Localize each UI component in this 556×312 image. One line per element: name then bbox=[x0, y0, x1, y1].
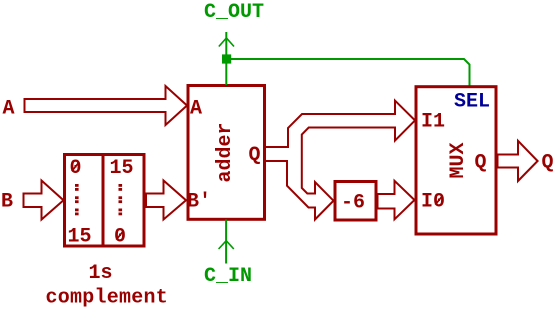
wire C_IN (green, into adder bottom) bbox=[225, 220, 227, 264]
svg-text:1s: 1s bbox=[89, 262, 113, 285]
1s complement block body bbox=[65, 155, 145, 247]
1s complement divider bbox=[102, 155, 105, 247]
svg-text:Q: Q bbox=[475, 152, 487, 175]
junction node (green square) bbox=[222, 54, 231, 63]
svg-text:Q: Q bbox=[542, 152, 554, 175]
svg-text:B': B' bbox=[187, 191, 211, 214]
arrowhead C_OUT bbox=[219, 38, 234, 47]
svg-text:C_OUT: C_OUT bbox=[204, 1, 264, 24]
svg-text:15: 15 bbox=[68, 226, 92, 249]
subtractor -6 body bbox=[335, 182, 376, 221]
mux U2 body bbox=[416, 87, 496, 234]
wire C_OUT (green, out of adder top) bbox=[225, 32, 227, 85]
svg-text:A: A bbox=[3, 98, 15, 121]
bus arrow -6 to MUX I0 bbox=[378, 181, 415, 220]
bus fork: adder Q to MUX I1 and to -6 bbox=[264, 101, 415, 220]
svg-text:SEL: SEL bbox=[454, 91, 490, 114]
svg-text:0: 0 bbox=[114, 226, 126, 249]
bus arrow A (input A into adder) bbox=[25, 86, 188, 125]
svg-text:0: 0 bbox=[70, 157, 82, 180]
svg-text:MUX: MUX bbox=[447, 142, 470, 178]
svg-text:adder: adder bbox=[214, 122, 237, 182]
svg-text:A: A bbox=[190, 98, 202, 121]
arrowhead C_IN bbox=[219, 241, 234, 249]
svg-text:complement: complement bbox=[46, 287, 169, 310]
dots right column bbox=[119, 184, 123, 215]
svg-text:-6: -6 bbox=[341, 192, 365, 215]
svg-text:Q: Q bbox=[249, 144, 261, 167]
svg-text:I1: I1 bbox=[421, 111, 445, 134]
output bus arrow Q bbox=[498, 141, 538, 181]
dots left column bbox=[75, 184, 79, 215]
bus arrow complement to B' bbox=[146, 181, 186, 220]
bus arrow B (input B into 1s complement) bbox=[24, 181, 64, 220]
wire from C_OUT junction to MUX SEL bbox=[231, 59, 470, 88]
svg-text:B: B bbox=[1, 191, 13, 214]
svg-text:15: 15 bbox=[110, 157, 134, 180]
adder U1 body bbox=[188, 86, 265, 220]
svg-text:I0: I0 bbox=[421, 191, 445, 214]
svg-text:C_IN: C_IN bbox=[204, 265, 252, 288]
